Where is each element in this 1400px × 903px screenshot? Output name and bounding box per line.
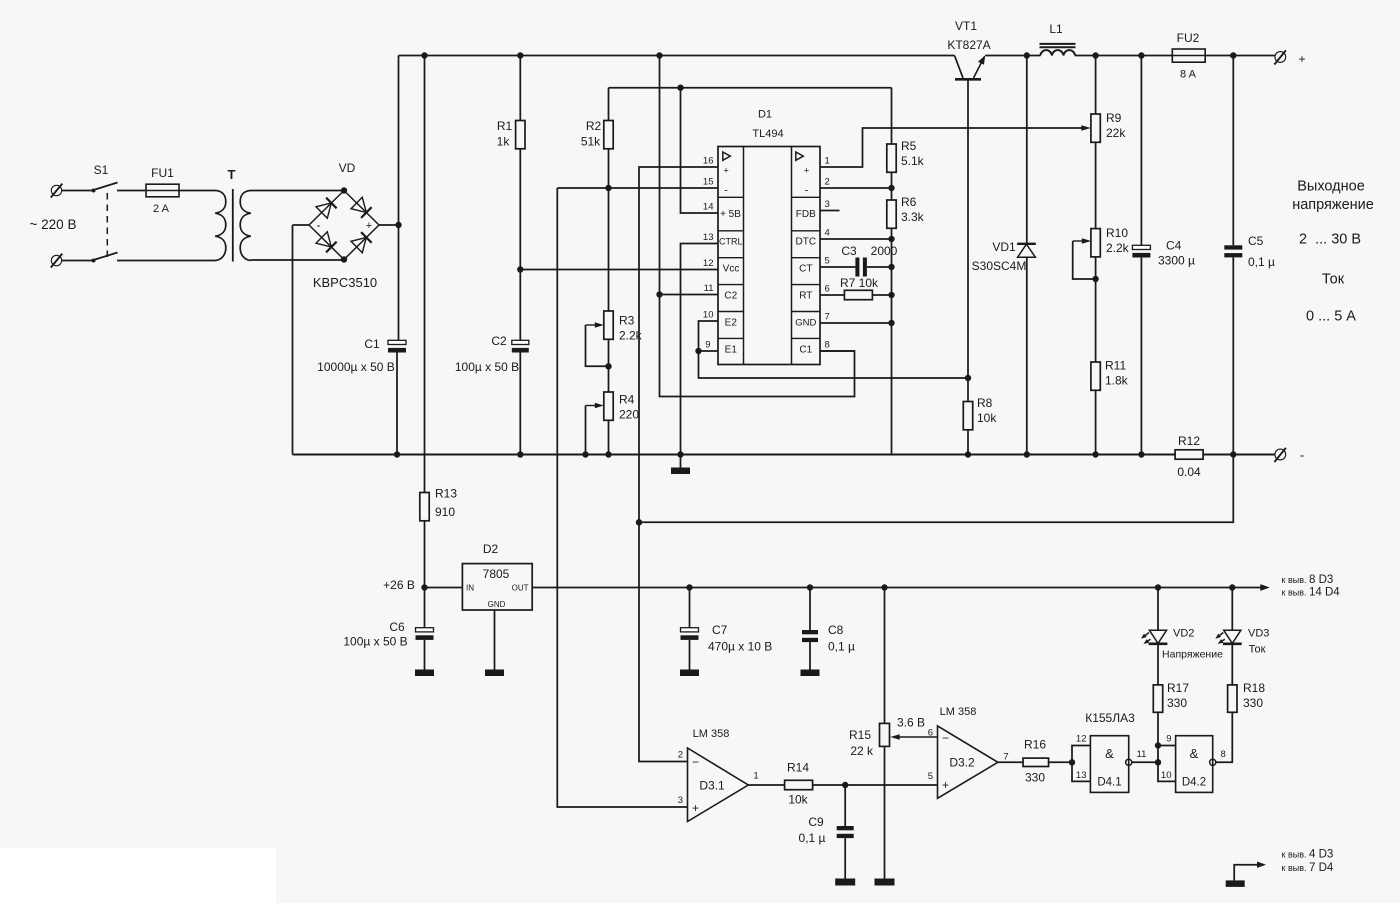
svg-text:FU1: FU1	[151, 166, 174, 180]
svg-text:C9: C9	[808, 815, 824, 829]
svg-text:+: +	[942, 778, 949, 792]
resistor R16	[1023, 758, 1049, 766]
svg-text:6: 6	[928, 728, 933, 739]
bridge diode VD.2 (top-right edge)	[351, 197, 366, 212]
wire R2 bottom to pin15 node	[608, 149, 610, 188]
svg-text:7805: 7805	[483, 567, 510, 581]
svg-text:C1: C1	[799, 345, 812, 356]
wire R13 to +26V node	[424, 521, 426, 588]
svg-text:R7 10k: R7 10k	[840, 276, 879, 290]
svg-text:Ток: Ток	[1249, 644, 1266, 656]
svg-text:C6: C6	[389, 620, 405, 634]
R10 wiper arrow	[1073, 240, 1088, 242]
op-amp D3.1 triangle	[688, 748, 749, 822]
feedback wire from output minus to pin16 line	[639, 455, 1233, 523]
svg-text:Выходное: Выходное	[1297, 179, 1365, 195]
node +rect (rectified +)	[395, 222, 401, 228]
IC D1 right cell divider 3	[792, 257, 821, 259]
svg-text:C3: C3	[841, 244, 857, 258]
svg-text:-: -	[1300, 448, 1304, 463]
output terminal +	[1275, 52, 1286, 63]
svg-text:OUT: OUT	[512, 584, 529, 593]
wire pin15	[557, 187, 718, 189]
capacitor C6	[416, 628, 434, 632]
svg-text:LM 358: LM 358	[940, 706, 977, 718]
svg-text:−: −	[942, 731, 949, 745]
svg-text:TL494: TL494	[752, 128, 783, 140]
wire +26V node to C6	[424, 588, 426, 628]
svg-text:D4.1: D4.1	[1097, 777, 1121, 789]
R4 wiper arrow	[586, 405, 601, 407]
node pin11 on collector column	[656, 291, 662, 297]
wire R17 to pin9 node	[1157, 712, 1159, 745]
transistor VT1 base bar	[955, 78, 981, 81]
fuse FU1	[146, 184, 179, 197]
svg-text:D2: D2	[483, 542, 499, 556]
svg-text:13: 13	[703, 232, 714, 243]
svg-text:9: 9	[1166, 734, 1171, 745]
capacitor C1	[388, 340, 406, 344]
svg-text:8: 8	[825, 340, 830, 351]
wire collector column (rail to C1C2)	[660, 56, 855, 397]
svg-text:R14: R14	[787, 761, 809, 775]
svg-text:10: 10	[703, 310, 714, 321]
node VD1 on bus	[1024, 451, 1030, 457]
node VD3 on +5V rail	[1229, 584, 1235, 590]
wire R7 to ground column	[872, 294, 891, 296]
switch S1 mechanical link (dashed)	[106, 193, 108, 257]
wire terminal1 to switch S1 contact	[62, 190, 93, 192]
wire pin16 to current-sense line	[639, 167, 718, 522]
svg-text:C4: C4	[1166, 239, 1182, 253]
wire L1 to FU2	[1075, 55, 1172, 57]
resistor R12 (shunt)	[1175, 450, 1203, 459]
wire R9 to R10	[1095, 142, 1097, 228]
svg-text:D1: D1	[758, 109, 772, 121]
wire VT1 base down	[967, 79, 969, 401]
wire VD3 column upper	[1231, 588, 1233, 631]
potentiometer R3	[604, 311, 613, 339]
bridge diode VD.1 (left-top edge)	[316, 203, 331, 218]
svg-text:15: 15	[703, 177, 714, 188]
ground symbol below bus	[680, 455, 682, 468]
svg-text:к выв. 7 D4: к выв. 7 D4	[1282, 862, 1334, 874]
wire VD2 column upper	[1157, 588, 1159, 631]
ground below D2	[485, 670, 504, 677]
wire R11 to bus	[1095, 390, 1097, 454]
wire pin11 C2 to collector column	[660, 294, 719, 296]
svg-text:3: 3	[678, 795, 683, 806]
wire node to D4.2 pin10	[1158, 762, 1176, 781]
ground to logic supply arrow	[1234, 865, 1262, 881]
ground below C9	[835, 879, 855, 886]
NAND D4.2 inverter circle	[1210, 759, 1216, 765]
LED VD2 cathode bar	[1149, 642, 1168, 645]
svg-text:0,1 µ: 0,1 µ	[799, 831, 826, 845]
wire minus down to common bus	[292, 225, 294, 455]
node C5 top	[1230, 52, 1236, 58]
svg-text:2000: 2000	[871, 244, 898, 258]
svg-text:E1: E1	[725, 345, 738, 356]
svg-text:&: &	[1105, 746, 1114, 761]
svg-text:R11: R11	[1105, 359, 1126, 373]
svg-text:GND: GND	[488, 600, 506, 609]
wire R2 top to R5 column	[609, 87, 892, 89]
svg-text:11: 11	[704, 283, 714, 294]
potentiometer R15	[880, 723, 890, 746]
capacitor C4	[1132, 245, 1150, 249]
svg-text:12: 12	[1076, 734, 1087, 745]
svg-text:-: -	[317, 218, 321, 232]
wire pin16 line down to D3.1 inverting input	[639, 522, 688, 761]
node R15 on +5V rail	[881, 584, 887, 590]
resistor R17	[1153, 685, 1162, 712]
wire D3.2 output to R16	[998, 761, 1023, 763]
IC D1 right pin column line	[791, 147, 793, 365]
capacitor C9	[837, 826, 854, 830]
svg-text:10k: 10k	[788, 793, 808, 807]
svg-text:R1: R1	[497, 119, 513, 133]
diode bridge VD frame	[309, 191, 379, 260]
svg-text:R5: R5	[901, 139, 917, 153]
wire C8 column	[809, 588, 811, 631]
svg-text:R8: R8	[977, 396, 993, 410]
LED VD3 emission arrows	[1218, 633, 1224, 637]
IC D1 right cell divider 5	[792, 311, 821, 313]
wire +rect down to C1	[398, 225, 400, 340]
svg-text:-: -	[724, 185, 728, 197]
node D4.1 input fork	[1069, 759, 1075, 765]
IC D1 left cell divider 6	[718, 337, 744, 339]
svg-text:R16: R16	[1024, 738, 1046, 752]
svg-text:+: +	[804, 166, 810, 177]
svg-text:3.6 В: 3.6 В	[897, 716, 925, 730]
wire R16 to D4.1 inputs node	[1049, 761, 1072, 763]
svg-text:R10: R10	[1106, 226, 1128, 240]
common (minus) bus wire	[293, 454, 1175, 456]
wire R13 column from rail	[424, 56, 426, 493]
wire node to D4.2 pin9	[1157, 746, 1159, 763]
wire +rect up to top rail	[398, 56, 400, 226]
wire C4 column	[1140, 56, 1142, 246]
node C5/R12/feedback	[1230, 451, 1236, 457]
IC D1 left cell divider 3	[718, 257, 744, 259]
switch S1 contact pole 2	[92, 259, 96, 263]
switch S1 contact pole 1	[92, 189, 96, 193]
resistor R14	[785, 780, 813, 789]
wire D3.1 output to R14	[748, 784, 784, 786]
node C1 minus on bus	[394, 451, 400, 457]
svg-text:R2: R2	[586, 119, 602, 133]
svg-text:7: 7	[825, 312, 830, 323]
wire VD2 to R17	[1157, 644, 1159, 685]
ground below C6	[415, 670, 434, 677]
svg-text:к выв. 8 D3: к выв. 8 D3	[1282, 574, 1334, 586]
svg-text:E2: E2	[725, 318, 738, 329]
node pin4 on ground column	[888, 236, 894, 242]
potentiometer R4	[604, 392, 613, 420]
svg-text:-: -	[805, 185, 809, 197]
node pin2/R5/R6	[888, 185, 894, 191]
IC D1 comparator symbol right	[796, 152, 804, 160]
wire C6 to ground	[424, 640, 426, 670]
svg-text:1k: 1k	[497, 135, 511, 149]
svg-text:Ток: Ток	[1322, 272, 1345, 288]
svg-text:2.2k: 2.2k	[1106, 241, 1130, 255]
svg-text:+: +	[366, 220, 372, 232]
wire FU2 to + terminal	[1205, 55, 1275, 57]
wire bridge minus left	[293, 224, 310, 226]
svg-text:6: 6	[825, 284, 830, 295]
svg-text:12: 12	[703, 258, 714, 269]
wire R2R3 column	[608, 188, 610, 311]
svg-text:R3: R3	[619, 314, 635, 328]
wire C9 node to D3.2 noninverting input	[845, 784, 937, 786]
wire R5 to pin2 node	[891, 172, 893, 200]
svg-text:3.3k: 3.3k	[901, 210, 925, 224]
potentiometer R9	[1091, 114, 1100, 142]
resistor R5	[887, 144, 896, 172]
voltage regulator D2 7805 box	[462, 564, 532, 610]
svg-text:5.1k: 5.1k	[901, 154, 925, 168]
resistor R11	[1091, 362, 1100, 390]
wire C4 to bus	[1140, 257, 1142, 454]
svg-text:0 ... 5 А: 0 ... 5 А	[1306, 309, 1356, 325]
svg-text:910: 910	[435, 505, 455, 519]
node E1/E2 junction	[695, 348, 701, 354]
svg-text:13: 13	[1076, 770, 1087, 781]
svg-text:T: T	[228, 167, 236, 182]
node rail/R13 column	[421, 52, 427, 58]
svg-text:C2: C2	[491, 334, 507, 348]
wire C7 to ground	[689, 640, 691, 670]
node R2top/pin14 junction	[677, 85, 683, 91]
svg-text:100µ x 50 В: 100µ x 50 В	[455, 360, 519, 374]
svg-text:+: +	[692, 801, 699, 815]
IC D1 right cell divider 2	[792, 230, 821, 232]
input terminal XS2 (~220V line 2)	[51, 255, 61, 265]
svg-text:10000µ x 50 В: 10000µ x 50 В	[317, 360, 395, 374]
wire VT1 emitter rail to L1	[985, 55, 1040, 57]
svg-text:GND: GND	[795, 318, 816, 329]
bridge diode VD.3 (left-bottom edge)	[316, 232, 331, 247]
capacitor C2	[512, 340, 529, 344]
node feedback/pin16 line	[636, 519, 642, 525]
op-amp D3.2 triangle	[938, 726, 998, 798]
resistor R18	[1228, 685, 1237, 712]
svg-text:+26 В: +26 В	[383, 578, 415, 592]
IC D1 right cell divider 6	[792, 337, 821, 339]
wire C2 to bus	[519, 352, 521, 454]
node pin15/R2/R3	[605, 185, 611, 191]
wire pin9 E1	[699, 350, 719, 352]
output terminal -	[1275, 449, 1286, 460]
svg-text:8: 8	[1221, 749, 1226, 760]
node Vcc/R1/C2	[517, 266, 523, 272]
svg-text:DTC: DTC	[796, 237, 817, 248]
wire R1 to Vcc node	[519, 149, 521, 270]
ground below R15	[875, 879, 895, 886]
wire pin10 E2	[699, 321, 719, 351]
wire pin1 to R9 wiper	[820, 128, 1087, 167]
resistor R13	[420, 493, 429, 521]
svg-text:14: 14	[703, 202, 714, 213]
wire to D4.1 pin12	[1072, 746, 1090, 763]
background white patch bottom-left	[0, 848, 276, 903]
node +26V	[421, 584, 427, 590]
svg-text:51k: 51k	[581, 135, 601, 149]
svg-text:2: 2	[678, 750, 683, 761]
svg-text:D3.2: D3.2	[949, 756, 975, 770]
svg-text:470µ x 10 В: 470µ x 10 В	[708, 640, 772, 654]
wire R3 to R4	[608, 339, 610, 392]
svg-text:9: 9	[705, 340, 710, 351]
node pin6 on ground column	[888, 292, 894, 298]
node R3 bottom/wiper	[605, 363, 611, 369]
wire pin2 feedback	[820, 187, 892, 189]
IC D1 right cell divider 4	[792, 284, 821, 286]
wire C8 to ground	[809, 642, 811, 669]
wire C3 to ground column	[867, 266, 892, 268]
node CTRL ground on bus	[677, 451, 683, 457]
svg-text:10: 10	[1161, 770, 1172, 781]
LED VD2 triangle	[1149, 630, 1166, 643]
svg-text:R6: R6	[901, 195, 917, 209]
inductor L1	[1040, 50, 1075, 55]
transistor VT1 emitter arrow	[974, 57, 985, 79]
wire top +26V rail	[399, 55, 955, 57]
svg-text:3300 µ: 3300 µ	[1158, 254, 1195, 268]
svg-text:R4: R4	[619, 393, 635, 407]
diode VD1 cathode bar	[1017, 243, 1036, 245]
LED VD3 triangle	[1224, 630, 1241, 643]
wire R5 top from R2top wire	[891, 88, 893, 144]
svg-text:R17: R17	[1167, 681, 1189, 695]
IC D1 left cell divider 2	[718, 230, 744, 232]
wire pin6 RT to R7	[820, 294, 844, 296]
wire C7 column	[689, 588, 691, 628]
IC D1 left cell divider 5	[718, 311, 744, 313]
potentiometer R10	[1091, 229, 1100, 257]
node base/emitter drive	[965, 375, 971, 381]
svg-text:2: 2	[825, 177, 830, 188]
IC D1 left cell divider 4	[718, 284, 744, 286]
ground bar (logic)	[1226, 880, 1245, 887]
svg-text:R15: R15	[849, 728, 871, 742]
wire R2 top lead	[608, 88, 610, 121]
wire D4.1 out to node	[1132, 761, 1158, 763]
node R14/C9/D3.2+	[842, 782, 848, 788]
svg-text:7: 7	[1003, 752, 1008, 763]
fuse FU2	[1172, 49, 1205, 62]
svg-text:+: +	[723, 166, 729, 177]
R10 wiper wire	[1073, 241, 1096, 279]
svg-text:2 A: 2 A	[153, 203, 170, 215]
wire pin14 +5B	[681, 88, 719, 213]
NAND gate D4.2 box	[1176, 736, 1213, 793]
LED VD3 cathode bar	[1223, 642, 1242, 645]
node R4 wiper on bus	[582, 451, 588, 457]
resistor R2	[604, 121, 613, 149]
svg-text:к выв. 14 D4: к выв. 14 D4	[1282, 587, 1341, 599]
svg-text:220: 220	[619, 408, 639, 422]
wire R14 to C9 node	[813, 784, 845, 786]
node VD2 on +5V rail	[1155, 584, 1161, 590]
svg-text:FDB: FDB	[796, 209, 816, 220]
node C2 minus on bus	[517, 451, 523, 457]
svg-text:4: 4	[825, 228, 830, 239]
resistor R6	[887, 200, 896, 228]
R4 wiper wire to bus	[585, 406, 587, 455]
svg-text:5: 5	[825, 256, 830, 267]
svg-text:S30SC4M: S30SC4M	[972, 259, 1027, 273]
wire S1 to fuse FU1	[117, 190, 146, 192]
svg-text:IN: IN	[466, 584, 474, 593]
svg-text:11: 11	[1137, 749, 1147, 760]
svg-text:~ 220 В: ~ 220 В	[30, 217, 77, 232]
wire pin15 down to D3.1 noninverting input	[557, 188, 687, 807]
svg-text:LM 358: LM 358	[693, 728, 730, 740]
R15 wiper wire from D3.2 inverting input	[894, 736, 938, 738]
svg-text:22 k: 22 k	[850, 744, 874, 758]
switch S1 blade 1	[95, 183, 118, 190]
ground below C8	[801, 670, 820, 677]
wire pin13 CTRL to ground	[681, 244, 719, 455]
svg-text:FU2: FU2	[1177, 31, 1200, 45]
capacitor C3 left plate	[855, 258, 859, 277]
wire to D4.1 pin13	[1072, 762, 1090, 781]
svg-text:R12: R12	[1178, 434, 1200, 448]
svg-text:Vcc: Vcc	[723, 264, 740, 275]
wire secondary top to bridge AC top	[251, 190, 345, 192]
svg-text:KBPC3510: KBPC3510	[313, 275, 377, 290]
node C8 on +5V rail	[807, 584, 813, 590]
svg-text:R18: R18	[1243, 681, 1265, 695]
svg-text:Напряжение: Напряжение	[1162, 649, 1223, 661]
node R10 bottom/wiper	[1092, 276, 1098, 282]
wire R9 column from rail	[1095, 56, 1097, 115]
svg-text:0,1 µ: 0,1 µ	[1248, 255, 1275, 269]
wire C9 node down	[844, 785, 846, 826]
+5V rail from D2 OUT	[532, 587, 1266, 589]
IC D1 right cell divider 1	[792, 196, 821, 198]
wire terminal2 to switch S1 contact 2	[62, 260, 93, 262]
svg-text:R13: R13	[435, 487, 457, 501]
svg-text:D3.1: D3.1	[699, 779, 725, 793]
IC D1 left pin column line	[743, 147, 745, 365]
svg-text:RT: RT	[799, 291, 812, 302]
R3 wiper arrow	[586, 324, 601, 326]
input terminal XS1 (~220V line 1)	[51, 185, 61, 195]
node R17/pin9	[1155, 742, 1161, 748]
wire D2 GND lead	[494, 610, 496, 670]
diode VD1 triangle	[1018, 244, 1036, 257]
svg-text:C8: C8	[828, 623, 844, 637]
wire R10 to R11	[1095, 257, 1097, 362]
svg-text:1.8k: 1.8k	[1105, 374, 1129, 388]
node R11 on bus	[1092, 451, 1098, 457]
wire bridge plus to +rect node	[379, 224, 399, 226]
wire emitters to VT1 base column	[699, 351, 969, 378]
node VD1 top	[1024, 52, 1030, 58]
wire R15 column lower to ground	[884, 746, 886, 878]
node D4.1 output	[1155, 759, 1161, 765]
svg-text:C2: C2	[724, 291, 737, 302]
R3 wiper wire	[586, 325, 609, 366]
bridge diode VD.4 (bottom-right edge)	[351, 238, 366, 253]
svg-text:VD3: VD3	[1248, 628, 1269, 640]
wire D4.2 out to R18 column	[1216, 712, 1233, 762]
